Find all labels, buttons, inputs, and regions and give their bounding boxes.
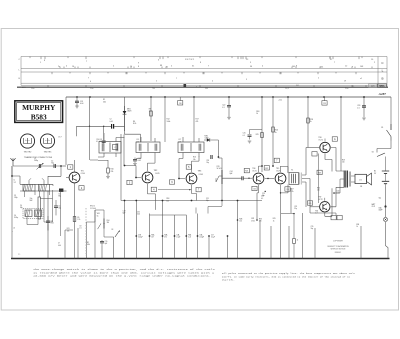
tuning capacitor C1 bbox=[39, 164, 40, 168]
svg-text:R25: R25 bbox=[273, 218, 276, 220]
wire drop x86 bbox=[85, 222, 87, 259]
boxed pin label 2 bbox=[79, 186, 84, 190]
svg-text:C4: C4 bbox=[14, 215, 16, 217]
wire rail x194 bbox=[193, 97, 195, 142]
wire out lower h bbox=[281, 213, 294, 215]
aerial coil L2 bbox=[39, 184, 50, 191]
svg-text:R30: R30 bbox=[317, 187, 320, 189]
junction dots AGC bbox=[124, 200, 126, 202]
svg-text:1k: 1k bbox=[256, 113, 258, 115]
wire drop x162.5 bbox=[162, 201, 164, 259]
svg-text:5k: 5k bbox=[275, 132, 277, 134]
dial row-2 tick marks bbox=[60, 67, 372, 69]
wire drop x124.5 bbox=[124, 201, 126, 259]
svg-text:TRANSISTOR CONNECTIONS: TRANSISTOR CONNECTIONS bbox=[24, 156, 53, 159]
svg-text:4.1: 4.1 bbox=[352, 85, 354, 87]
svg-text:R25: R25 bbox=[256, 134, 259, 136]
svg-text:C25: C25 bbox=[243, 133, 246, 135]
wire detector line bbox=[77, 126, 125, 140]
capacitor C22 bbox=[228, 97, 230, 106]
wire out mid bbox=[290, 188, 292, 213]
wire TR1 base bbox=[66, 177, 69, 179]
wire TR5 emitter bbox=[280, 185, 282, 226]
on-off switch S1 bbox=[387, 124, 392, 141]
svg-text:L2: L2 bbox=[52, 185, 54, 187]
capacitor C16 bbox=[102, 141, 106, 142]
wire T1 sec taps bbox=[302, 148, 306, 208]
wire T1 primary bot bbox=[281, 185, 289, 193]
wire drop x260 bbox=[259, 220, 261, 259]
wire C24 to TR4 base bbox=[243, 177, 252, 179]
junction dots on top bus bbox=[76, 96, 78, 98]
svg-text:0.05: 0.05 bbox=[336, 193, 339, 195]
svg-text:100: 100 bbox=[342, 162, 345, 164]
dial row-1 tick marks bbox=[30, 57, 362, 60]
wire drop x95 bbox=[94, 210, 96, 259]
svg-text:7: 7 bbox=[88, 78, 89, 80]
svg-text:0.1: 0.1 bbox=[79, 228, 81, 230]
driver transformer T1 bbox=[289, 173, 299, 185]
svg-text:C18: C18 bbox=[206, 160, 209, 162]
svg-text:M/SEC: M/SEC bbox=[379, 86, 385, 88]
svg-text:C30: C30 bbox=[336, 190, 339, 192]
svg-text:1k: 1k bbox=[273, 220, 275, 222]
svg-text:x: x bbox=[352, 66, 353, 68]
dial scale frame lines bbox=[21, 57, 387, 86]
wire rail89 tick bbox=[89, 126, 90, 127]
svg-text:OC45: OC45 bbox=[155, 173, 159, 175]
boxed label R22 bbox=[264, 166, 269, 170]
svg-text:1.6n: 1.6n bbox=[31, 88, 34, 90]
dial bottom right maker boxes bbox=[369, 84, 378, 87]
svg-text:50p: 50p bbox=[206, 200, 209, 202]
bottom junction row bbox=[135, 235, 137, 237]
junction front-end bbox=[60, 165, 62, 167]
wire speaker links bbox=[351, 176, 355, 182]
transistor connection diagram circle 2 (TR4/TR5) bbox=[40, 134, 54, 148]
trimmer capacitor C5 bbox=[54, 206, 58, 207]
wire drop x227.5 bbox=[227, 236, 229, 259]
svg-text:OC72: OC72 bbox=[318, 199, 322, 201]
svg-text:L13: L13 bbox=[100, 139, 103, 141]
coupling capacitor C2 bbox=[54, 164, 55, 168]
wire T1 primary top bbox=[281, 167, 289, 173]
transistor connection diagram circle 1 (TR1/TR2) bbox=[20, 134, 34, 148]
mech link dashed bbox=[85, 208, 87, 256]
wire TR2 base bbox=[124, 135, 141, 178]
svg-text:T1: T1 bbox=[291, 170, 293, 172]
svg-text:25µ: 25µ bbox=[294, 208, 297, 210]
padder capacitor C6 bbox=[46, 221, 50, 222]
svg-text:earth.: earth. bbox=[222, 279, 235, 282]
svg-text:C23: C23 bbox=[323, 103, 326, 105]
resistor R24 bbox=[261, 133, 264, 138]
svg-text:470k: 470k bbox=[251, 220, 255, 222]
wire rail x288 bbox=[287, 97, 289, 173]
svg-text:8µF: 8µF bbox=[105, 243, 108, 245]
svg-text:104: 104 bbox=[320, 66, 323, 68]
wire drop x65 bbox=[64, 230, 66, 259]
IF transformer IFT3 bbox=[178, 142, 204, 153]
svg-text:0.01: 0.01 bbox=[51, 223, 54, 225]
wire rail336 bbox=[335, 213, 337, 215]
svg-text:COPYRIGHT: COPYRIGHT bbox=[333, 241, 343, 243]
transistor TR5 bbox=[275, 173, 286, 184]
svg-text:4: 4 bbox=[66, 66, 67, 68]
transistor TR2 bbox=[142, 172, 153, 183]
wire drop x78 bbox=[77, 228, 79, 259]
wire T2 centre tap bbox=[334, 179, 344, 193]
svg-text:OC71: OC71 bbox=[252, 170, 256, 172]
svg-text:≈: ≈ bbox=[12, 231, 13, 233]
battery B1 bbox=[382, 171, 389, 173]
svg-text:S2: S2 bbox=[372, 152, 374, 154]
svg-text:8.2k: 8.2k bbox=[133, 123, 136, 125]
wire left bottom links bbox=[12, 222, 86, 231]
svg-text:C16: C16 bbox=[96, 139, 99, 141]
junction TR45 bbox=[272, 165, 274, 167]
svg-text:OC71: OC71 bbox=[276, 170, 280, 172]
svg-text:n: n bbox=[196, 86, 197, 88]
resistor R28 bbox=[307, 118, 310, 123]
svg-text:L6: L6 bbox=[13, 228, 15, 230]
svg-text:470: 470 bbox=[259, 221, 262, 223]
svg-text:0.1: 0.1 bbox=[357, 107, 359, 109]
svg-text:TR4/TR5: TR4/TR5 bbox=[44, 152, 52, 154]
svg-text:R19: R19 bbox=[217, 166, 220, 168]
svg-text:C24: C24 bbox=[230, 171, 233, 173]
boxed label C23 bbox=[322, 101, 327, 105]
svg-text:8µF: 8µF bbox=[230, 173, 233, 175]
svg-text:1k: 1k bbox=[297, 240, 299, 242]
HT supply top bus bbox=[66, 96, 391, 98]
resistor R36 bbox=[293, 239, 296, 244]
svg-text:6.8k: 6.8k bbox=[87, 244, 90, 246]
svg-text:TR1: TR1 bbox=[81, 171, 84, 173]
wire lower seg1 bbox=[150, 214, 187, 216]
wire R4 link bbox=[125, 134, 141, 142]
wire rail x341 bbox=[340, 97, 342, 171]
oscillator coil L4 bbox=[25, 210, 32, 217]
svg-text:OA70: OA70 bbox=[127, 110, 131, 113]
wire rail x66 (left HT feed) bbox=[65, 97, 67, 165]
wire TR7 collector bbox=[324, 198, 326, 201]
wire rail x262 bbox=[261, 97, 263, 172]
svg-text:C34: C34 bbox=[286, 189, 289, 191]
svg-text:208p: 208p bbox=[34, 160, 38, 162]
svg-text:R14: R14 bbox=[107, 220, 110, 222]
wire drop x222 volume bbox=[221, 184, 223, 201]
svg-text:10k: 10k bbox=[193, 159, 196, 161]
svg-text:R18: R18 bbox=[166, 198, 169, 200]
svg-text:L15: L15 bbox=[137, 139, 140, 141]
svg-text:0.1: 0.1 bbox=[261, 198, 263, 200]
svg-text:6: 6 bbox=[90, 81, 91, 83]
svg-text:OC?: OC? bbox=[58, 137, 62, 139]
svg-text:19: 19 bbox=[344, 80, 346, 82]
potentiometer VR1 bbox=[103, 219, 105, 229]
wire det to volume bbox=[218, 157, 222, 170]
decoupling capacitor C13 bbox=[76, 97, 78, 101]
wire drop x237.5 bbox=[237, 201, 239, 259]
boxed label B bbox=[312, 152, 317, 156]
svg-text:0.1: 0.1 bbox=[222, 107, 224, 109]
boxed label X1 bbox=[151, 187, 156, 191]
wire drop x149.5 bbox=[149, 214, 151, 259]
wire drop x186 bbox=[185, 215, 187, 259]
svg-text:5k: 5k bbox=[97, 215, 99, 217]
junction mid dots bbox=[135, 177, 137, 179]
boxed pin label 7 bbox=[196, 187, 201, 191]
wire mixer base bbox=[53, 190, 67, 192]
wire T1 tap mid bbox=[306, 179, 310, 214]
svg-text:MURPHY: MURPHY bbox=[22, 103, 56, 112]
wire front-end link3 bbox=[48, 166, 61, 184]
switch S3 arrow bbox=[115, 231, 119, 237]
wire drop x361 bbox=[360, 226, 362, 259]
wire TR6 base bbox=[306, 147, 319, 149]
wire drop x174.5 bbox=[174, 215, 176, 259]
svg-text:0.04: 0.04 bbox=[138, 160, 141, 162]
svg-text:R2: R2 bbox=[87, 242, 89, 244]
coupling capacitor C14 bbox=[112, 124, 114, 129]
svg-text:B: B bbox=[381, 77, 383, 81]
wire drop x197.5 bbox=[197, 214, 199, 259]
svg-text:3-30p: 3-30p bbox=[14, 217, 18, 219]
svg-text:OC45: OC45 bbox=[199, 174, 203, 176]
svg-text:C31: C31 bbox=[294, 206, 297, 208]
wire MR1 down bbox=[124, 119, 126, 126]
boxed pin label 3 bbox=[127, 180, 132, 184]
aerial A1 bbox=[10, 158, 15, 166]
wire rail x165 bbox=[164, 97, 166, 142]
svg-text:R28: R28 bbox=[342, 159, 345, 161]
wire IFT1 leads bbox=[98, 133, 125, 157]
svg-text:R23: R23 bbox=[251, 218, 254, 220]
wire battery bottom bbox=[385, 187, 387, 206]
wire cluster links bbox=[86, 210, 113, 237]
svg-text:50µ: 50µ bbox=[311, 228, 314, 230]
svg-text:C2: C2 bbox=[110, 119, 112, 121]
IF transformer IFT2 bbox=[136, 142, 160, 153]
svg-text:2.0n: 2.0n bbox=[345, 88, 348, 90]
svg-text:C19: C19 bbox=[123, 210, 126, 212]
wire drop x209 bbox=[208, 236, 210, 259]
svg-text:1.6,2: 1.6,2 bbox=[285, 88, 289, 90]
svg-text:2: 2 bbox=[318, 78, 319, 80]
capacitor C25 bbox=[250, 130, 263, 135]
svg-text:88: 88 bbox=[160, 65, 162, 67]
svg-text:ISSUE 1: ISSUE 1 bbox=[335, 252, 342, 254]
wire to battery bbox=[385, 157, 387, 168]
ferrite rod bbox=[20, 184, 53, 191]
boxed label C20 bbox=[178, 101, 183, 105]
svg-text:S3: S3 bbox=[111, 229, 113, 231]
svg-text:76p: 76p bbox=[51, 163, 54, 165]
wire TR3 base bbox=[179, 159, 185, 179]
svg-text:47k: 47k bbox=[164, 237, 167, 239]
wire TR7 base bbox=[310, 206, 319, 208]
wire tr5 lower bbox=[257, 219, 260, 221]
svg-text:92: 92 bbox=[166, 67, 168, 69]
svg-text:1k: 1k bbox=[356, 226, 358, 228]
coil tap arrows bbox=[29, 178, 44, 184]
svg-text:30p: 30p bbox=[58, 208, 61, 210]
junction dot c26 bbox=[363, 96, 365, 98]
capacitor C17 bbox=[134, 158, 136, 160]
wire drop x48 bbox=[47, 191, 49, 259]
wire TR7 emitter bbox=[325, 188, 332, 216]
oscillator coil L3 box bbox=[23, 209, 43, 219]
coupling capacitor C24 bbox=[242, 176, 243, 180]
wire TR3 emitter bbox=[192, 185, 197, 201]
svg-text:WITHOUT NOTICE: WITHOUT NOTICE bbox=[331, 249, 347, 251]
svg-text:L1: L1 bbox=[14, 180, 16, 182]
wire TR1 collector bbox=[74, 160, 76, 172]
boxed label C34 bbox=[285, 187, 290, 191]
dial row-3 tick marks bbox=[52, 72, 356, 74]
diode MR1 bbox=[124, 106, 126, 111]
wire IFT2 leads bbox=[136, 137, 155, 159]
svg-text:16: 16 bbox=[72, 66, 74, 68]
wire rail x121 AGC rail bbox=[120, 134, 122, 201]
svg-text:C21: C21 bbox=[206, 198, 209, 200]
wire osc loop bbox=[40, 190, 53, 222]
svg-text:0.1µF: 0.1µF bbox=[211, 237, 215, 239]
svg-text:50p: 50p bbox=[206, 162, 209, 164]
svg-text:3.2: 3.2 bbox=[14, 182, 16, 184]
svg-text:7: 7 bbox=[176, 78, 177, 80]
dial row-5 tick marks bbox=[48, 85, 366, 87]
wire TR6 to T2 bbox=[331, 148, 344, 172]
svg-text:0.04: 0.04 bbox=[80, 103, 83, 105]
wire drop x289 bbox=[288, 226, 290, 259]
svg-text:C15: C15 bbox=[105, 241, 108, 243]
svg-text:1.0n: 1.0n bbox=[90, 88, 93, 90]
svg-text:(68°F). In some early receiver: (68°F). In some early receivers, R30 is … bbox=[222, 275, 351, 278]
wire TR7 to T2 bbox=[331, 187, 344, 207]
wire battery to chassis bbox=[386, 207, 389, 259]
wire front-end link2 bbox=[12, 176, 20, 184]
svg-text:x1: x1 bbox=[360, 78, 362, 80]
svg-text:0.04µF: 0.04µF bbox=[199, 237, 204, 239]
svg-text:108: 108 bbox=[360, 66, 363, 68]
boxed label X3 bbox=[331, 215, 336, 219]
svg-text:R29: R29 bbox=[318, 172, 321, 174]
svg-text:L17: L17 bbox=[179, 139, 182, 141]
svg-text:100k: 100k bbox=[167, 121, 171, 123]
svg-text:1k: 1k bbox=[310, 121, 312, 123]
capacitor C26 bbox=[363, 97, 365, 106]
wire volume wiper link bbox=[215, 178, 217, 182]
resistor R5 bbox=[73, 217, 76, 222]
wire rail x273 bbox=[272, 97, 274, 166]
model label box MURPHY B583 bbox=[15, 101, 63, 123]
svg-text:OC44: OC44 bbox=[81, 173, 85, 175]
wire TR5 base bbox=[265, 178, 274, 180]
wire aerial line bbox=[13, 165, 63, 167]
svg-text:A287: A287 bbox=[378, 92, 387, 96]
wire switch link bbox=[377, 141, 391, 153]
svg-text:C3B: C3B bbox=[138, 234, 141, 236]
svg-text:50Hz: 50Hz bbox=[371, 86, 375, 88]
svg-text:R33: R33 bbox=[259, 218, 262, 220]
boxed label R29 bbox=[317, 170, 322, 174]
wire drop x136 bbox=[135, 201, 137, 259]
wire x361 stub bbox=[360, 225, 362, 227]
svg-text:550: 550 bbox=[205, 88, 208, 90]
svg-text:56k: 56k bbox=[103, 101, 106, 103]
svg-text:47k: 47k bbox=[196, 121, 199, 123]
wire rail x151 bbox=[150, 97, 152, 141]
svg-text:L18: L18 bbox=[179, 141, 182, 143]
IF transformer IFT1 bbox=[99, 142, 121, 154]
wire drop x315 bbox=[314, 228, 316, 259]
svg-text:3: 3 bbox=[246, 79, 247, 81]
svg-text:84.1: 84.1 bbox=[296, 85, 299, 87]
wire TR4 emitter bbox=[257, 185, 259, 220]
svg-text:R32: R32 bbox=[315, 210, 318, 212]
wire TR5 collector bbox=[280, 166, 282, 172]
svg-text:C27: C27 bbox=[211, 234, 214, 236]
wire TR3 collector bbox=[192, 157, 200, 173]
wire rail x124.5 detector bbox=[124, 97, 126, 131]
wire drop x113.7 bbox=[113, 237, 115, 259]
on-off switch S2 bbox=[377, 153, 385, 157]
svg-text:R34: R34 bbox=[356, 224, 359, 226]
volume control R19 bbox=[221, 170, 223, 184]
svg-text:CLIP: CLIP bbox=[372, 206, 375, 208]
wire r8 cont bbox=[150, 116, 152, 141]
wire TR1 emitter bbox=[74, 183, 76, 259]
wire rail x89.5 bbox=[89, 97, 91, 160]
wire rail x308 bbox=[307, 97, 309, 148]
resistor R26 bbox=[272, 127, 275, 132]
wire agc top bbox=[120, 133, 122, 135]
wire IFT3 leads bbox=[179, 137, 199, 159]
wire L1 leads bbox=[25, 191, 50, 197]
svg-text:OC72: OC72 bbox=[318, 139, 322, 141]
svg-text:R2B: R2B bbox=[239, 218, 242, 220]
wire TR4 collector bbox=[259, 166, 263, 172]
svg-text:R21: R21 bbox=[245, 171, 248, 173]
wire to tuner bbox=[63, 165, 66, 167]
svg-text:C33: C33 bbox=[253, 189, 256, 191]
detector diode MR2 bbox=[208, 139, 211, 141]
svg-text:C17: C17 bbox=[138, 158, 141, 160]
svg-text:126p: 126p bbox=[14, 197, 18, 199]
wire rail294 bbox=[293, 214, 295, 239]
svg-text:C8: C8 bbox=[79, 225, 81, 227]
svg-text:10: 10 bbox=[130, 66, 132, 68]
wire osc leads bbox=[27, 217, 38, 225]
svg-text:R16: R16 bbox=[193, 157, 196, 159]
wire TR6 collector bbox=[324, 139, 326, 142]
svg-text:8µF: 8µF bbox=[123, 213, 126, 215]
svg-text:R35: R35 bbox=[309, 203, 312, 205]
AGC line bbox=[121, 200, 262, 202]
svg-text:96: 96 bbox=[250, 66, 252, 68]
boxed label A bbox=[332, 137, 337, 141]
svg-text:C20: C20 bbox=[179, 103, 182, 105]
svg-text:R22: R22 bbox=[265, 168, 268, 170]
svg-text:S1: S1 bbox=[381, 127, 383, 129]
loudspeaker LS bbox=[355, 174, 367, 183]
wire osc links bbox=[48, 200, 56, 230]
svg-text:C35: C35 bbox=[311, 226, 314, 228]
svg-text:B583: B583 bbox=[31, 112, 47, 121]
svg-text:20,000 Ω/V meter and were meas: 20,000 Ω/V meter and were measured on th… bbox=[33, 275, 211, 278]
